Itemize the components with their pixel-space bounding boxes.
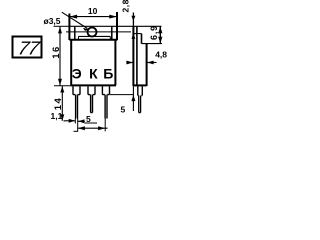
dim 16 bottom arrow bbox=[58, 79, 62, 86]
svg-text:4,8: 4,8 bbox=[155, 50, 167, 60]
svg-text:77: 77 bbox=[16, 39, 42, 60]
ext serif at bottom bbox=[74, 130, 79, 132]
pin 3 lead bbox=[105, 95, 107, 119]
svg-text:10: 10 bbox=[88, 6, 98, 16]
svg-text:К: К bbox=[89, 66, 98, 82]
dim 2,8 lower up arrowhead bbox=[131, 34, 135, 39]
svg-text:5: 5 bbox=[121, 105, 126, 115]
pin 1 stub bbox=[73, 86, 80, 94]
dim 4,8 right tail bbox=[147, 62, 157, 64]
dim 14 line bbox=[61, 86, 63, 121]
dim 16 extension bottom bbox=[54, 85, 71, 87]
svg-text:1,1: 1,1 bbox=[51, 111, 63, 121]
dim 1,1 right arrow into pin bbox=[69, 119, 76, 123]
body left edge bbox=[70, 40, 72, 85]
dim 14 bottom arrow bbox=[60, 114, 64, 120]
dim 6,9 top arrow bbox=[158, 27, 162, 34]
svg-text:6,9: 6,9 bbox=[149, 25, 159, 40]
side view pin stub bbox=[138, 86, 143, 95]
dia 3,5 leader line bbox=[62, 12, 88, 28]
dim 5 side up arrow bbox=[131, 95, 135, 101]
svg-text:16: 16 bbox=[51, 45, 62, 59]
side view tab front edge + inner metal line bbox=[136, 26, 138, 86]
pin 2 stub bbox=[88, 86, 95, 94]
body top thick line bbox=[69, 39, 117, 41]
ext line pin1 right bbox=[77, 119, 79, 132]
body raised left step bbox=[78, 36, 80, 39]
dim 5 side dim line below body bbox=[132, 86, 134, 111]
body raised top line bbox=[79, 35, 111, 37]
dim 2,8 down arrowhead bbox=[131, 16, 135, 21]
dim lower left arrow bbox=[78, 126, 85, 130]
ext line pin1 left bbox=[74, 119, 76, 124]
svg-text:2,8: 2,8 bbox=[121, 0, 131, 13]
dim 10 left arrow bbox=[70, 15, 78, 19]
body right edge bbox=[114, 40, 116, 85]
body bottom thick edge bbox=[71, 84, 116, 86]
dim 6,9 bottom arrow bbox=[158, 37, 162, 44]
pin 2 lead bbox=[91, 95, 93, 113]
front view tab top edge + extension to 6,9 dim bbox=[69, 25, 161, 27]
dim 2,8 upper line with down arrow bbox=[132, 13, 134, 27]
side view step2 + ext for 6,9 bbox=[142, 43, 163, 45]
dim 6,9 line bbox=[159, 26, 161, 43]
dim 16 top arrow bbox=[58, 27, 62, 34]
hole circle bbox=[88, 28, 97, 37]
side view step1 line bbox=[133, 33, 141, 35]
side view body front edge bbox=[146, 44, 148, 86]
svg-text:ø3,5: ø3,5 bbox=[44, 16, 61, 26]
body raised right step bbox=[109, 36, 111, 39]
hole centerline bbox=[66, 31, 131, 33]
dim 16 extension top bbox=[54, 25, 70, 27]
dia 3,5 leader arrowhead bbox=[83, 28, 89, 31]
dim 1,1 line left bbox=[64, 120, 76, 122]
svg-text:14: 14 bbox=[53, 97, 64, 111]
dim 4,8 right arrow bbox=[147, 61, 154, 65]
ext line pin3 left bbox=[104, 119, 106, 132]
side view pin lead bbox=[139, 96, 141, 113]
dim 16 line bbox=[59, 27, 61, 86]
dim 1,1 left arrow from right side bbox=[78, 119, 85, 123]
svg-text:Э: Э bbox=[72, 66, 82, 82]
pin 3 stub bbox=[102, 86, 109, 94]
dim 5 line pitch bbox=[78, 121, 97, 123]
pin 1 lead bbox=[76, 95, 78, 119]
side view back edge bbox=[132, 26, 134, 86]
dim 5 side ext line bbox=[110, 94, 134, 96]
figure number box 77 bbox=[13, 37, 42, 58]
dim 10 line bbox=[69, 16, 117, 18]
svg-text:Б: Б bbox=[103, 66, 113, 82]
front view tab right edge + extension for 10 dim bbox=[116, 12, 118, 40]
dim lower line bbox=[78, 127, 108, 129]
svg-text:5: 5 bbox=[86, 114, 91, 124]
dim 4,8 left arrow bbox=[126, 61, 133, 65]
front view tab inner left vertical bbox=[74, 26, 76, 39]
front view tab left edge + extension for 10 dim bbox=[68, 14, 70, 41]
dim 14 top arrow bbox=[60, 86, 64, 92]
side view body bottom bbox=[133, 84, 146, 86]
dim 4,8 left tail bbox=[127, 62, 134, 64]
front view tab inner right vertical bbox=[111, 26, 113, 39]
dim lower right arrow bbox=[98, 126, 105, 130]
side view front edge upper bbox=[141, 34, 143, 44]
dim 10 right arrow bbox=[109, 15, 117, 19]
